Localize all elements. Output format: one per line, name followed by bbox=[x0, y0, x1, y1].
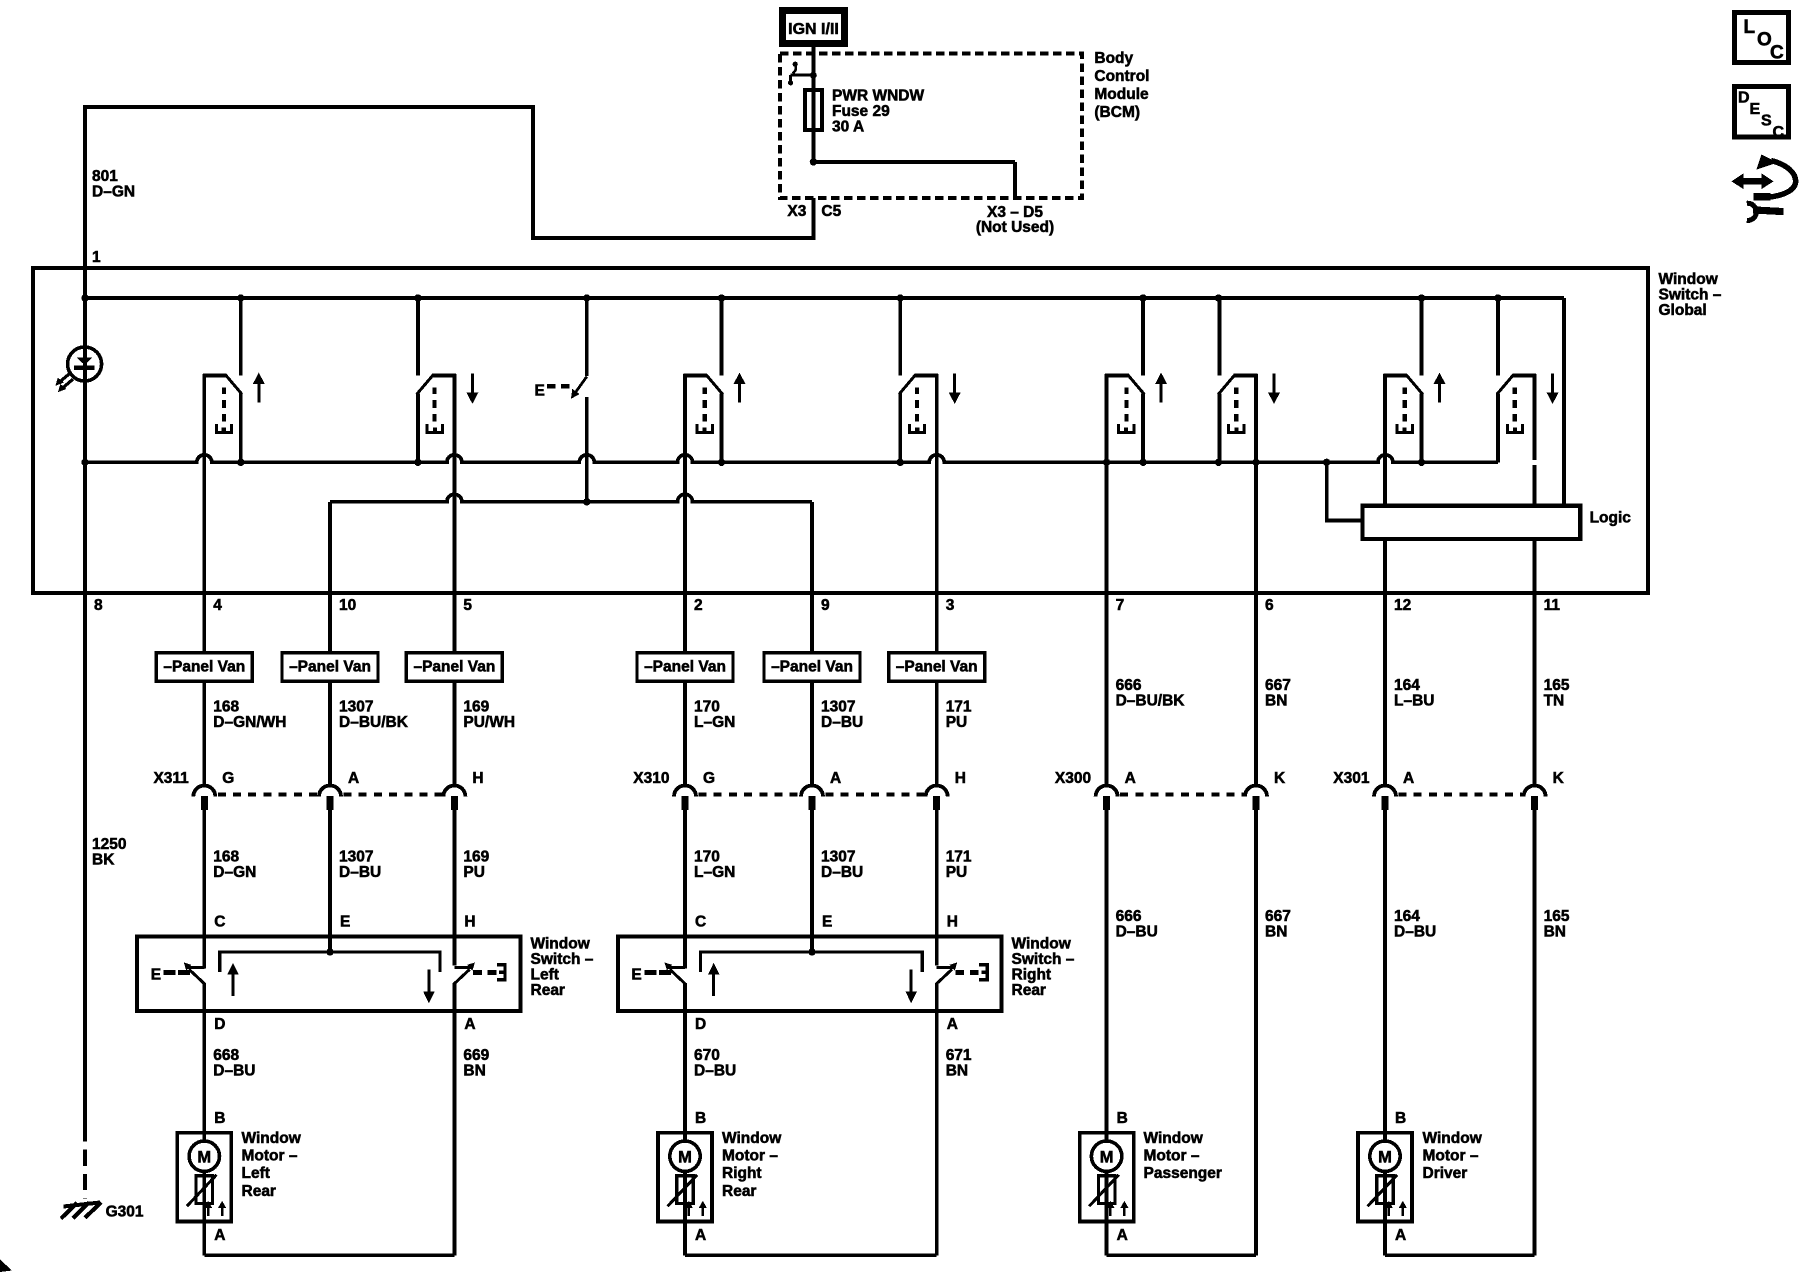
label 1307 D-BU/BK bbox=[339, 699, 409, 731]
svg-text:A: A bbox=[695, 1227, 706, 1244]
svg-text:Rear: Rear bbox=[722, 1183, 756, 1200]
window switch right rear internals bbox=[631, 937, 989, 1012]
svg-text:X300: X300 bbox=[1055, 770, 1091, 787]
svg-text:C: C bbox=[1770, 43, 1784, 64]
label X3-D5 not used bbox=[976, 204, 1054, 236]
svg-text:PU: PU bbox=[463, 864, 485, 881]
svg-text:A: A bbox=[348, 770, 359, 787]
label 169 PU bbox=[463, 849, 489, 881]
label 666 D-BU/BK bbox=[1116, 677, 1186, 710]
svg-text:Module: Module bbox=[1094, 86, 1149, 103]
svg-text:PU: PU bbox=[946, 714, 968, 731]
label Window Motor Passenger bbox=[1144, 1130, 1222, 1182]
wire pin 5 vertical bbox=[452, 593, 456, 937]
svg-text:D–BU: D–BU bbox=[1394, 924, 1436, 941]
svg-text:G301: G301 bbox=[106, 1204, 144, 1221]
wire pin 3 vertical bbox=[935, 593, 939, 937]
svg-text:Window: Window bbox=[722, 1130, 782, 1147]
svg-text:801: 801 bbox=[92, 168, 118, 185]
switch up left-rear window bbox=[203, 298, 265, 593]
label 669 BN bbox=[463, 1047, 489, 1079]
wire motor driver return bbox=[1385, 1222, 1535, 1256]
label 1307 D-BU lower2 bbox=[821, 849, 863, 881]
Body Control Module (BCM) dashed box bbox=[780, 54, 1082, 199]
wire pin 6 vertical bbox=[1254, 593, 1258, 1255]
tools/navigation icon bbox=[1732, 155, 1796, 221]
svg-text:A: A bbox=[1125, 770, 1136, 787]
ground G301 bbox=[61, 1202, 101, 1218]
svg-text:BN: BN bbox=[946, 1062, 968, 1079]
svg-text:D–BU: D–BU bbox=[213, 1062, 255, 1079]
svg-text:Left: Left bbox=[242, 1165, 270, 1182]
connector X301 label bbox=[1333, 770, 1370, 787]
svg-text:Window: Window bbox=[1659, 271, 1719, 288]
switch up driver window bbox=[1384, 298, 1446, 593]
svg-text:C5: C5 bbox=[821, 203, 841, 220]
label 671 BN bbox=[946, 1047, 972, 1079]
svg-text:M: M bbox=[197, 1148, 211, 1166]
label 670 D-BU bbox=[694, 1047, 736, 1079]
svg-text:L–GN: L–GN bbox=[694, 864, 735, 881]
svg-text:H: H bbox=[947, 914, 958, 931]
express down switch bbox=[535, 298, 587, 502]
svg-text:11: 11 bbox=[1544, 597, 1561, 614]
BCM label bbox=[1094, 50, 1149, 121]
svg-text:9: 9 bbox=[821, 597, 830, 614]
svg-text:PWR WNDW: PWR WNDW bbox=[832, 88, 924, 105]
svg-text:Switch –: Switch – bbox=[1659, 287, 1722, 304]
pin letters C E H right rear bbox=[695, 914, 958, 931]
svg-text:H: H bbox=[464, 914, 475, 931]
svg-text:B: B bbox=[695, 1110, 706, 1127]
label Window Motor Left Rear bbox=[242, 1130, 302, 1200]
svg-text:PU: PU bbox=[946, 864, 968, 881]
LOC navigation icon bbox=[1735, 12, 1789, 63]
label 170 L-GN lower bbox=[694, 849, 735, 881]
switch up passenger window bbox=[1105, 298, 1167, 593]
svg-text:B: B bbox=[1117, 1110, 1128, 1127]
junction dot express rail bbox=[583, 498, 590, 505]
Window Switch - Global box bbox=[33, 268, 1648, 593]
svg-text:Rear: Rear bbox=[531, 982, 565, 999]
BCM internal ignition switch contact bbox=[788, 47, 817, 85]
label 667 BN bbox=[1265, 677, 1291, 710]
connector X310 label bbox=[633, 770, 669, 787]
LED backlight indicator bbox=[55, 347, 101, 392]
label 171 PU bbox=[946, 699, 972, 731]
svg-text:–Panel Van: –Panel Van bbox=[644, 659, 726, 676]
svg-text:H: H bbox=[472, 770, 483, 787]
svg-text:Window: Window bbox=[1144, 1130, 1204, 1147]
ground rail wire bbox=[85, 455, 1498, 462]
splice -Panel Van bbox=[406, 653, 502, 682]
window motor passenger bbox=[1080, 1133, 1134, 1222]
splice -Panel Van bbox=[282, 653, 378, 682]
wire pin 2 vertical bbox=[683, 593, 687, 937]
svg-text:Right: Right bbox=[1012, 967, 1052, 984]
wire pin 12 vertical bbox=[1383, 593, 1387, 1133]
svg-text:C: C bbox=[214, 914, 225, 931]
pin 1 label bbox=[92, 249, 101, 266]
svg-text:A: A bbox=[1403, 770, 1414, 787]
pin letters D A right rear bbox=[695, 1016, 958, 1033]
svg-text:164: 164 bbox=[1394, 908, 1420, 925]
svg-text:C: C bbox=[695, 914, 706, 931]
svg-text:Switch –: Switch – bbox=[531, 951, 594, 968]
Window Switch Left Rear box bbox=[137, 937, 521, 1012]
svg-text:G: G bbox=[703, 770, 715, 787]
svg-text:B: B bbox=[1395, 1110, 1406, 1127]
svg-text:E: E bbox=[340, 914, 350, 931]
pin letters D A left rear bbox=[214, 1016, 475, 1033]
svg-text:D–BU: D–BU bbox=[821, 864, 863, 881]
svg-text:B: B bbox=[214, 1110, 225, 1127]
svg-text:M: M bbox=[1100, 1148, 1114, 1166]
svg-text:D: D bbox=[214, 1016, 225, 1033]
svg-text:Right: Right bbox=[722, 1165, 762, 1182]
svg-text:8: 8 bbox=[94, 597, 103, 614]
svg-text:BN: BN bbox=[1544, 924, 1566, 941]
svg-text:S: S bbox=[1761, 113, 1772, 130]
svg-text:(BCM): (BCM) bbox=[1094, 104, 1140, 121]
wire 669 loop bbox=[452, 1011, 456, 1255]
svg-text:D–GN/WH: D–GN/WH bbox=[213, 714, 286, 731]
svg-text:165: 165 bbox=[1544, 908, 1570, 925]
svg-text:K: K bbox=[1274, 770, 1286, 787]
svg-text:E: E bbox=[535, 383, 545, 400]
connector X311 label bbox=[153, 770, 189, 787]
svg-text:BN: BN bbox=[1265, 693, 1287, 710]
svg-text:D–GN: D–GN bbox=[92, 184, 135, 201]
switch down driver window bbox=[1497, 298, 1559, 593]
svg-text:D: D bbox=[1738, 90, 1750, 107]
svg-text:D–BU: D–BU bbox=[694, 1062, 736, 1079]
window switch left rear internals bbox=[151, 937, 507, 1012]
svg-text:A: A bbox=[464, 1016, 475, 1033]
svg-text:Window: Window bbox=[1423, 1130, 1483, 1147]
label 1250 BK bbox=[92, 836, 126, 869]
svg-text:10: 10 bbox=[339, 597, 356, 614]
wire pin 9 vertical bbox=[810, 593, 814, 937]
svg-text:E: E bbox=[822, 914, 832, 931]
svg-text:Driver: Driver bbox=[1423, 1165, 1468, 1182]
svg-text:Switch –: Switch – bbox=[1012, 951, 1075, 968]
label 165 TN bbox=[1544, 677, 1570, 710]
label 168 D-GN bbox=[213, 849, 256, 881]
svg-text:30 A: 30 A bbox=[832, 119, 864, 136]
svg-text:12: 12 bbox=[1394, 597, 1411, 614]
svg-text:Window: Window bbox=[242, 1130, 302, 1147]
wire fuse junction to X3-D5 (not used) bbox=[810, 158, 1015, 198]
svg-text:Window: Window bbox=[531, 936, 591, 953]
svg-text:A: A bbox=[1117, 1227, 1128, 1244]
svg-text:BN: BN bbox=[463, 1062, 485, 1079]
wire ground rail to logic bbox=[1327, 462, 1363, 520]
switch up right-rear window bbox=[684, 298, 746, 593]
pin letters B bbox=[214, 1110, 1406, 1127]
svg-text:BN: BN bbox=[1265, 924, 1287, 941]
svg-text:(Not Used): (Not Used) bbox=[976, 219, 1054, 236]
label 668 D-BU bbox=[213, 1047, 255, 1079]
svg-text:Motor –: Motor – bbox=[242, 1148, 298, 1165]
pin number labels bbox=[94, 597, 1560, 614]
svg-text:Left: Left bbox=[531, 967, 559, 984]
Window Switch Right Rear box bbox=[618, 937, 1002, 1012]
wire 671 loop bbox=[935, 1011, 939, 1255]
label 168 D-GN/WH bbox=[213, 699, 286, 731]
switch down left-rear window bbox=[417, 298, 479, 593]
wire motor left rear return bbox=[204, 1222, 454, 1256]
svg-text:–Panel Van: –Panel Van bbox=[771, 659, 853, 676]
splice -Panel Van bbox=[637, 653, 733, 682]
svg-text:L–GN: L–GN bbox=[694, 714, 735, 731]
svg-text:X311: X311 bbox=[153, 770, 189, 787]
svg-text:D–GN: D–GN bbox=[213, 864, 256, 881]
Logic block bbox=[1362, 506, 1580, 539]
wire 668 to motor bbox=[202, 1011, 206, 1133]
svg-text:4: 4 bbox=[213, 597, 222, 614]
svg-text:Motor –: Motor – bbox=[1423, 1148, 1479, 1165]
svg-text:667: 667 bbox=[1265, 677, 1291, 694]
wire pin 10 vertical bbox=[328, 593, 332, 937]
label 1307 D-BU lower bbox=[339, 849, 381, 881]
svg-text:C: C bbox=[1773, 124, 1785, 141]
svg-text:Rear: Rear bbox=[242, 1183, 276, 1200]
splice -Panel Van bbox=[764, 653, 860, 682]
svg-text:Fuse 29: Fuse 29 bbox=[832, 103, 890, 120]
label Window Motor Driver bbox=[1423, 1130, 1483, 1182]
wire 1250 BK to ground bbox=[83, 593, 87, 1199]
label Window Motor Right Rear bbox=[722, 1130, 782, 1200]
svg-text:164: 164 bbox=[1394, 677, 1420, 694]
svg-text:667: 667 bbox=[1265, 908, 1291, 925]
wire 670 to motor bbox=[683, 1011, 687, 1133]
page corner artifact bbox=[0, 1260, 12, 1273]
wire motor right rear return bbox=[685, 1222, 937, 1256]
label Window Switch Right Rear bbox=[1012, 936, 1075, 1000]
svg-text:PU/WH: PU/WH bbox=[463, 714, 515, 731]
connector X300 label bbox=[1055, 770, 1091, 787]
label Logic bbox=[1590, 510, 1632, 527]
svg-text:–Panel Van: –Panel Van bbox=[163, 659, 245, 676]
svg-text:Passenger: Passenger bbox=[1144, 1165, 1222, 1182]
pin letters A bbox=[214, 1227, 1406, 1244]
wire 801 D-GN from BCM to window switch bbox=[85, 107, 813, 268]
label 666 D-BU bbox=[1116, 908, 1158, 941]
svg-text:D–BU/BK: D–BU/BK bbox=[339, 714, 409, 731]
connector X311 pins G A H bbox=[193, 770, 483, 810]
label 801 D-GN bbox=[92, 168, 135, 201]
svg-text:3: 3 bbox=[946, 597, 955, 614]
svg-text:6: 6 bbox=[1265, 597, 1274, 614]
BCM connector labels X3 C5 bbox=[787, 203, 841, 220]
svg-text:M: M bbox=[678, 1148, 692, 1166]
svg-text:E: E bbox=[631, 967, 641, 984]
svg-text:D–BU: D–BU bbox=[1116, 924, 1158, 941]
label 170 L-GN bbox=[694, 699, 735, 731]
svg-text:D–BU/BK: D–BU/BK bbox=[1116, 693, 1186, 710]
svg-text:X301: X301 bbox=[1333, 770, 1370, 787]
svg-text:H: H bbox=[955, 770, 966, 787]
label 1307 D-BU bbox=[821, 699, 863, 731]
svg-text:1250: 1250 bbox=[92, 836, 126, 853]
svg-text:M: M bbox=[1378, 1148, 1392, 1166]
junction dots on power bus bbox=[81, 294, 1501, 301]
fuse F29 PWR WNDW 30A bbox=[805, 75, 822, 162]
svg-text:Motor –: Motor – bbox=[722, 1148, 778, 1165]
label Window Switch Left Rear bbox=[531, 936, 594, 1000]
svg-text:–Panel Van: –Panel Van bbox=[896, 659, 978, 676]
svg-text:BK: BK bbox=[92, 852, 115, 869]
svg-text:K: K bbox=[1553, 770, 1565, 787]
svg-text:A: A bbox=[1395, 1227, 1406, 1244]
svg-text:E: E bbox=[151, 967, 161, 984]
svg-text:Body: Body bbox=[1094, 50, 1133, 67]
connector X300 pins A K bbox=[1096, 770, 1286, 810]
svg-text:IGN I/II: IGN I/II bbox=[788, 21, 839, 38]
label 169 PU/WH bbox=[463, 699, 515, 731]
svg-text:A: A bbox=[830, 770, 841, 787]
svg-text:L: L bbox=[1744, 17, 1756, 38]
svg-text:A: A bbox=[947, 1016, 958, 1033]
svg-text:G: G bbox=[222, 770, 234, 787]
svg-text:L–BU: L–BU bbox=[1394, 693, 1434, 710]
svg-text:Logic: Logic bbox=[1590, 510, 1632, 527]
svg-text:Control: Control bbox=[1094, 68, 1149, 85]
svg-text:–Panel Van: –Panel Van bbox=[289, 659, 371, 676]
junction dots on ground rail bbox=[81, 459, 1425, 466]
svg-text:–Panel Van: –Panel Van bbox=[413, 659, 495, 676]
window motor driver bbox=[1358, 1133, 1412, 1222]
svg-text:5: 5 bbox=[463, 597, 472, 614]
pin letters C E H left rear bbox=[214, 914, 475, 931]
svg-text:Motor –: Motor – bbox=[1144, 1148, 1200, 1165]
window motor right rear bbox=[658, 1133, 712, 1222]
switch down right-rear window bbox=[899, 298, 961, 593]
svg-text:X3: X3 bbox=[787, 203, 806, 220]
svg-text:Window: Window bbox=[1012, 936, 1072, 953]
svg-text:TN: TN bbox=[1544, 693, 1565, 710]
label 165 BN bbox=[1544, 908, 1570, 941]
label G301 bbox=[106, 1204, 144, 1221]
svg-text:E: E bbox=[1750, 101, 1761, 118]
fuse label bbox=[832, 88, 924, 136]
label 667 BN lower bbox=[1265, 908, 1291, 941]
svg-text:D: D bbox=[695, 1016, 706, 1033]
connector X301 pins A K bbox=[1374, 770, 1565, 810]
wire motor passenger return bbox=[1107, 1222, 1256, 1256]
label 164 D-BU bbox=[1394, 908, 1436, 941]
wire pin 4 vertical bbox=[202, 593, 206, 937]
label 171 PU lower bbox=[946, 849, 972, 881]
svg-text:A: A bbox=[214, 1227, 225, 1244]
svg-text:1: 1 bbox=[92, 249, 101, 266]
svg-text:X310: X310 bbox=[633, 770, 669, 787]
DESC navigation icon bbox=[1735, 86, 1789, 141]
splice -Panel Van bbox=[156, 653, 252, 682]
svg-text:165: 165 bbox=[1544, 677, 1570, 694]
wire pin 11 vertical bbox=[1533, 593, 1537, 1255]
power bus wire bbox=[85, 298, 1564, 506]
label Window Switch Global bbox=[1659, 271, 1722, 319]
window motor left rear bbox=[177, 1133, 231, 1222]
wire pin1 to pin8 vertical bbox=[83, 268, 87, 593]
svg-text:D–BU: D–BU bbox=[821, 714, 863, 731]
wire pin 7 vertical bbox=[1105, 593, 1109, 1133]
IGN I/II power feed box bbox=[783, 11, 845, 44]
svg-text:Global: Global bbox=[1659, 302, 1707, 319]
svg-text:D–BU: D–BU bbox=[339, 864, 381, 881]
connector X310 pins G A H bbox=[674, 770, 966, 810]
svg-text:666: 666 bbox=[1116, 908, 1142, 925]
switch down passenger window bbox=[1218, 298, 1280, 593]
label 164 L-BU bbox=[1394, 677, 1434, 710]
svg-text:7: 7 bbox=[1116, 597, 1125, 614]
splice -Panel Van bbox=[889, 653, 985, 682]
express output rail wire bbox=[330, 494, 812, 593]
svg-text:2: 2 bbox=[694, 597, 703, 614]
svg-text:666: 666 bbox=[1116, 677, 1142, 694]
svg-text:Rear: Rear bbox=[1012, 982, 1046, 999]
